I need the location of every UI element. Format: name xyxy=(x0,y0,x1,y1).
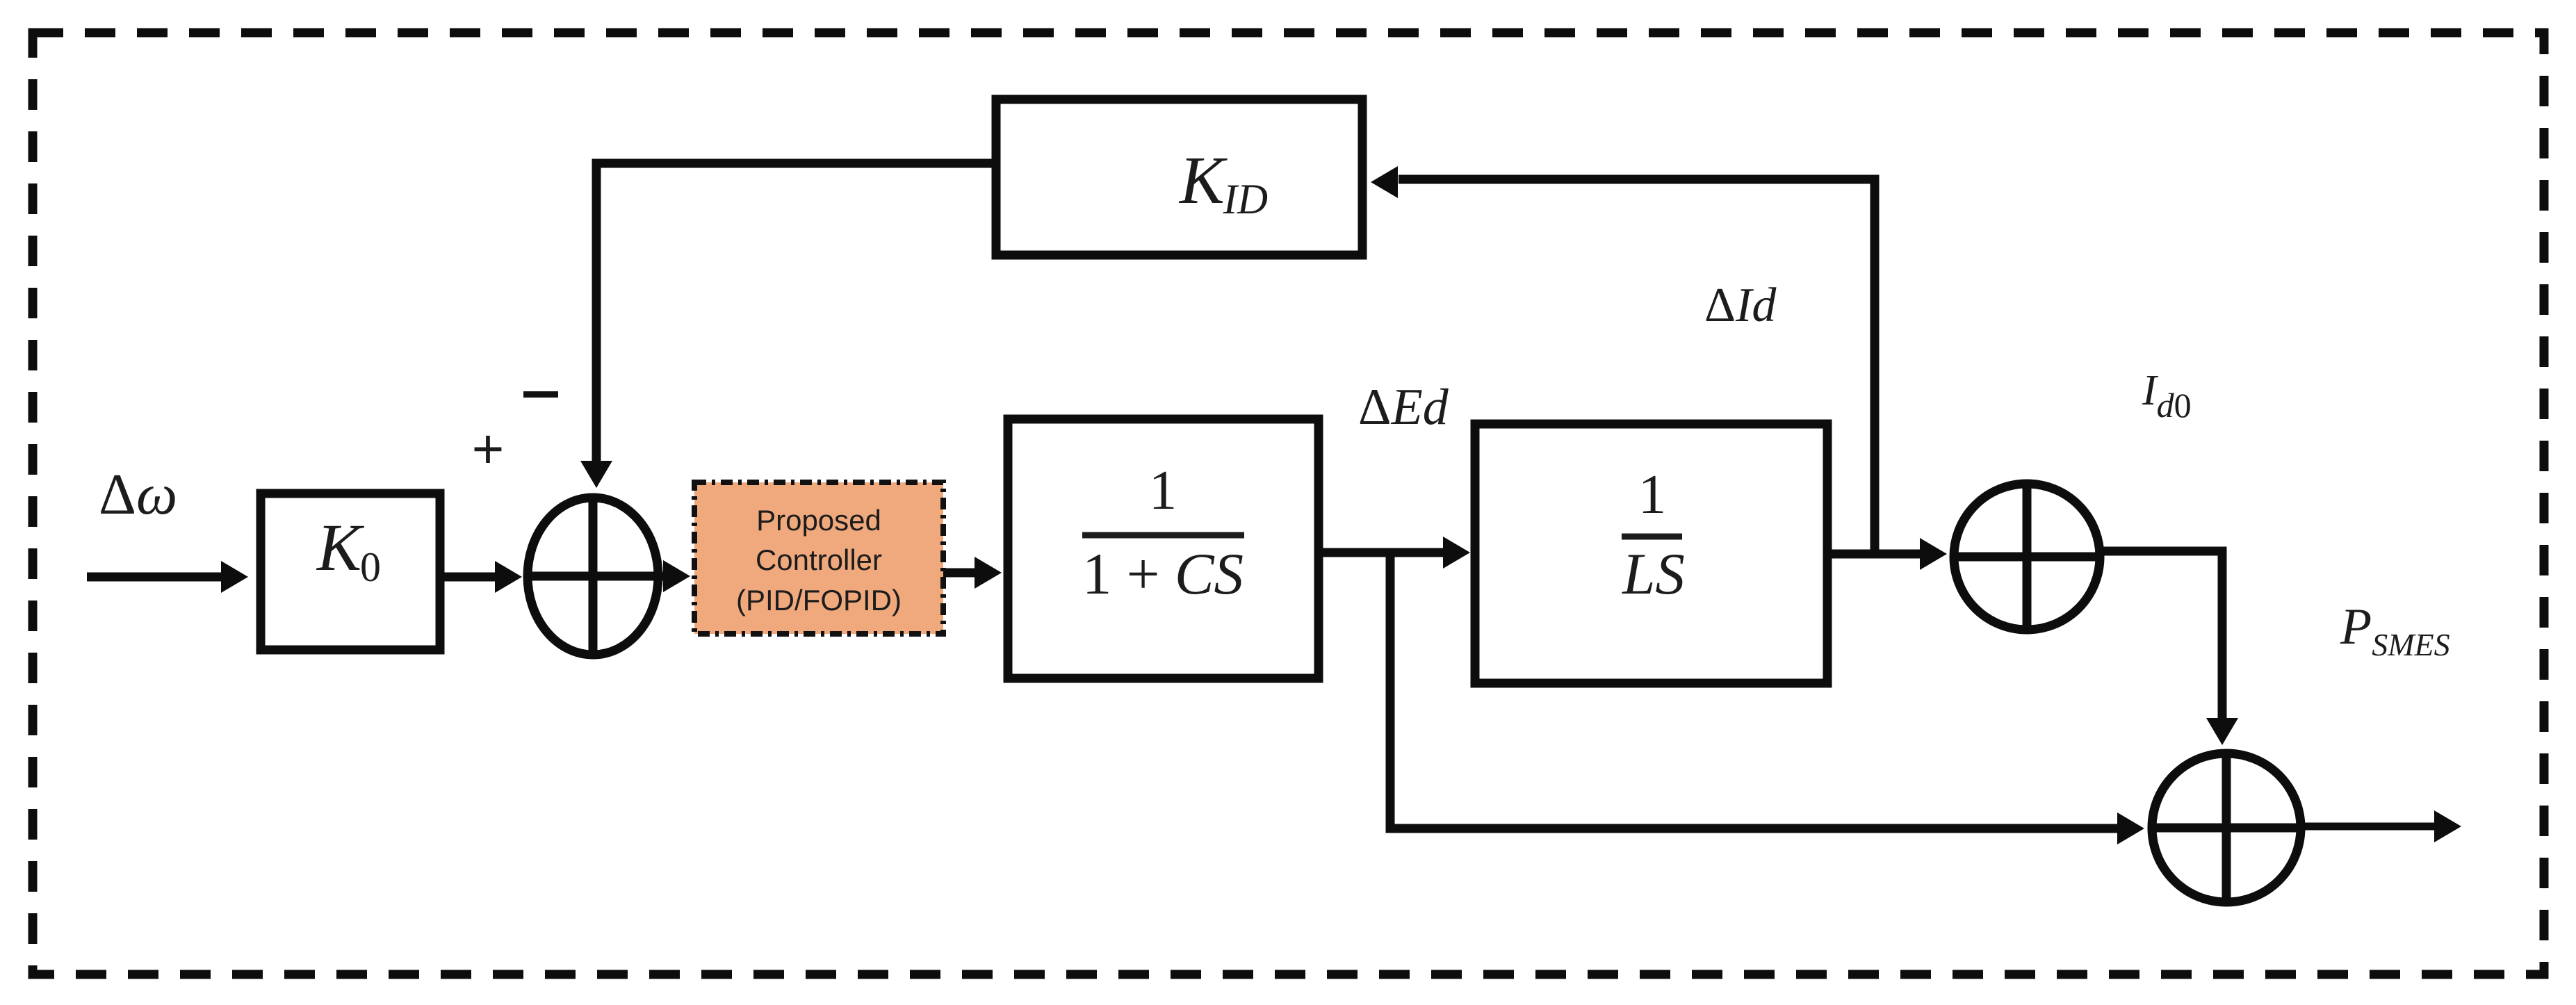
svg-text:+: + xyxy=(472,418,505,480)
svg-text:Δω: Δω xyxy=(99,462,177,527)
svg-text:LS: LS xyxy=(1622,541,1685,607)
svg-text:(PID/FOPID): (PID/FOPID) xyxy=(736,584,902,616)
svg-text:Proposed: Proposed xyxy=(756,504,881,537)
svg-text:ΔEd: ΔEd xyxy=(1358,379,1449,436)
svg-text:1 + CS: 1 + CS xyxy=(1082,541,1244,607)
svg-text:1: 1 xyxy=(1638,463,1667,525)
svg-text:ΔId: ΔId xyxy=(1704,279,1777,332)
svg-text:1: 1 xyxy=(1149,459,1177,521)
svg-text:Controller: Controller xyxy=(756,544,882,576)
